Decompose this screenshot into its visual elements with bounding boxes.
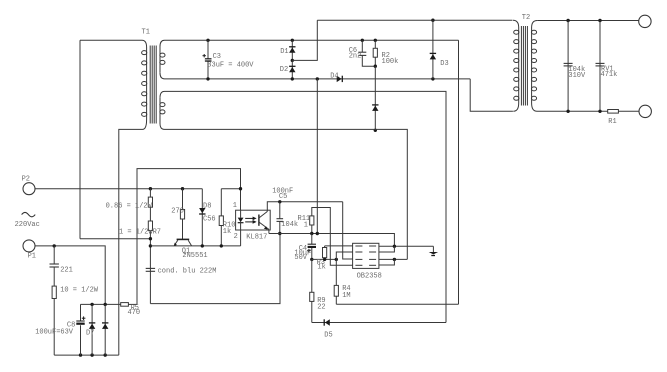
wire D5 line xyxy=(312,322,446,324)
svg-text:471k: 471k xyxy=(601,71,618,79)
wire snubber rail xyxy=(81,303,121,305)
varistor RV1 xyxy=(596,21,605,112)
svg-text:D8: D8 xyxy=(203,202,211,210)
svg-text:D5: D5 xyxy=(324,332,332,340)
node RV1 top xyxy=(598,19,601,22)
svg-text:220Vac: 220Vac xyxy=(15,221,40,229)
wire opto pin3 down xyxy=(268,229,270,233)
svg-text:270: 270 xyxy=(171,208,184,216)
transformer T2 core xyxy=(521,26,527,106)
diode D8 xyxy=(199,208,205,214)
svg-text:22: 22 xyxy=(317,303,325,311)
node D7 bottom xyxy=(90,353,93,356)
ground symbol xyxy=(429,246,438,255)
capacitor 221 xyxy=(50,246,59,286)
wire T2 secondary bottom xyxy=(537,110,608,112)
label D2 xyxy=(280,66,288,74)
resistor 10 half watt xyxy=(52,286,56,355)
node IC row1 xyxy=(393,245,396,248)
resistor 0.86 half watt xyxy=(148,189,152,208)
label 0.86 xyxy=(106,203,153,211)
label D3 xyxy=(440,60,448,68)
diode D5 xyxy=(324,319,330,325)
wire feedback drop x317 xyxy=(316,79,318,234)
node chainA mid1 xyxy=(149,237,152,240)
wire R5 up and box top xyxy=(137,169,241,305)
capacitor cond blu xyxy=(146,268,155,271)
svg-text:C5: C5 xyxy=(279,193,287,201)
wire vcc drop x458 xyxy=(458,40,460,304)
capacitor C4 xyxy=(307,234,316,260)
label 270 xyxy=(171,208,184,216)
label C8 xyxy=(35,321,75,336)
node R3 bottom xyxy=(323,258,326,261)
label C6 xyxy=(349,47,362,61)
svg-text:R7: R7 xyxy=(153,229,161,237)
svg-text:50V: 50V xyxy=(294,254,307,262)
svg-text:100k: 100k xyxy=(382,58,399,66)
wire secondary1 top rail y40 xyxy=(165,39,459,41)
resistor R7 xyxy=(148,207,152,303)
wire P2 line xyxy=(35,188,202,190)
svg-text:1k: 1k xyxy=(317,264,325,272)
opto LED xyxy=(238,210,244,246)
node IC row3 xyxy=(393,258,396,261)
opto pin1 label xyxy=(233,202,237,210)
svg-text:221: 221 xyxy=(60,266,73,274)
label 220Vac xyxy=(15,221,40,229)
svg-text:T2: T2 xyxy=(522,14,530,22)
svg-text:2n2: 2n2 xyxy=(349,53,362,61)
wire cond blu bottom xyxy=(150,234,280,304)
node D2 bottom xyxy=(291,77,294,80)
node chainA mid2 xyxy=(149,244,152,247)
ic U1 OB2358 box xyxy=(353,243,379,268)
node opto pin1 wire xyxy=(239,187,242,190)
diode D2 xyxy=(289,60,295,79)
node D6 bottom xyxy=(374,129,377,132)
svg-text:D7: D7 xyxy=(86,330,94,338)
terminal output top xyxy=(639,15,651,27)
transistor Q1 xyxy=(174,239,192,246)
node C4 bottom xyxy=(310,258,313,261)
ac symbol xyxy=(22,212,36,216)
wire to IC pin row2 xyxy=(336,252,352,259)
label output cap xyxy=(568,66,586,80)
svg-text:100uF=63V: 100uF=63V xyxy=(35,328,74,336)
label D5 xyxy=(324,332,332,340)
terminal output bottom xyxy=(639,105,651,117)
node 270 top xyxy=(181,187,184,190)
transformer T1 label xyxy=(142,29,150,37)
node R4 top xyxy=(335,258,338,261)
label C3 value xyxy=(207,61,254,69)
wire secondary1 bottom rail y79 xyxy=(165,78,471,80)
wire P1 line xyxy=(35,246,105,305)
node C3 top xyxy=(206,39,209,42)
svg-text:D2: D2 xyxy=(280,66,288,74)
resistor R2 xyxy=(373,40,377,66)
label D4 xyxy=(330,72,338,80)
label D8 xyxy=(203,202,216,223)
node output cap bottom xyxy=(566,110,569,113)
label C4 xyxy=(294,245,311,262)
svg-text:D3: D3 xyxy=(440,60,448,68)
node D3 top xyxy=(431,19,434,22)
wire primary top-left loop xyxy=(80,40,142,238)
terminal P2 xyxy=(22,176,35,195)
wire emitter rail xyxy=(150,245,240,247)
node D8 bottom xyxy=(201,244,204,247)
svg-text:470: 470 xyxy=(128,309,141,317)
diode D1 xyxy=(289,40,295,60)
node D3 bottom xyxy=(431,77,434,80)
resistor R9 xyxy=(310,259,314,322)
node R2 top xyxy=(374,39,377,42)
transformer T1 secondary 1 xyxy=(160,40,165,79)
svg-text:D1: D1 xyxy=(280,48,288,56)
svg-text:C56: C56 xyxy=(203,215,216,223)
diode snubber 2 xyxy=(102,304,108,355)
resistor R5 xyxy=(121,303,137,307)
resistor R4 xyxy=(334,259,338,304)
capacitor C3 xyxy=(203,40,212,79)
transformer T1 secondary 2 xyxy=(160,91,165,129)
node D1-D2 junction xyxy=(291,59,294,62)
terminal P1 xyxy=(23,240,36,260)
wire T1 primary bottom xyxy=(119,129,143,355)
wire D1D2 mid to top rail xyxy=(292,20,317,60)
node 221 cap top xyxy=(53,244,56,247)
node C3 bottom xyxy=(206,77,209,80)
wire R4 bottom rail xyxy=(336,303,458,305)
node D7 top xyxy=(90,303,93,306)
label D1 xyxy=(280,48,288,56)
label cond blu xyxy=(158,267,217,275)
svg-text:KL817: KL817 xyxy=(246,234,267,242)
svg-text:1: 1 xyxy=(233,202,237,210)
node C6-R2 bottom xyxy=(374,65,377,68)
label 221 xyxy=(60,266,73,274)
wire opto pin4 up xyxy=(267,202,342,210)
wire aux winding top y91 xyxy=(165,91,447,322)
svg-text:P2: P2 xyxy=(22,176,30,184)
wire IC right row2 xyxy=(379,246,395,252)
transformer T1 core xyxy=(150,46,156,124)
opto pin2 label xyxy=(234,233,238,241)
node C5 bottom xyxy=(278,232,281,235)
node P1 drop xyxy=(104,303,107,306)
node C5 top xyxy=(278,200,281,203)
label C3 xyxy=(213,53,221,61)
transformer T1 primary winding xyxy=(142,40,147,129)
label R9 xyxy=(317,297,325,311)
label R3 xyxy=(317,259,326,272)
capacitor C8 xyxy=(76,304,85,355)
svg-text:1: 1 xyxy=(304,221,308,229)
resistor R11 xyxy=(310,208,353,266)
wire top rail y20 xyxy=(317,19,512,21)
label C5 xyxy=(272,187,298,229)
label R11 xyxy=(298,215,311,230)
label Q1 xyxy=(182,247,208,260)
wire to T2 primary bottom xyxy=(470,79,513,111)
resistor R10 xyxy=(219,189,223,246)
capacitor C6 xyxy=(358,40,375,66)
wire pin4 drop to IC row3 xyxy=(343,202,353,259)
svg-text:0.86 = 1/2W: 0.86 = 1/2W xyxy=(106,203,153,211)
capacitor C5 xyxy=(277,202,284,234)
svg-text:10 = 1/2W: 10 = 1/2W xyxy=(60,286,99,294)
label R5 xyxy=(128,305,141,317)
opto arrows xyxy=(245,217,256,224)
wire rail y259 xyxy=(312,258,337,260)
svg-text:310V: 310V xyxy=(568,72,586,80)
svg-text:OB2358: OB2358 xyxy=(357,273,382,281)
opto phototransistor xyxy=(259,210,269,229)
svg-text:T1: T1 xyxy=(142,29,150,37)
resistor 270 xyxy=(180,189,184,239)
svg-text:33uF = 400V: 33uF = 400V xyxy=(207,61,254,69)
label R10 xyxy=(223,222,236,237)
label R1 xyxy=(608,118,616,126)
label R4 xyxy=(342,285,350,300)
node C6 top xyxy=(361,39,364,42)
wire R10 branch xyxy=(221,188,240,190)
node R11 bottom xyxy=(310,232,313,235)
svg-text:2: 2 xyxy=(234,233,238,241)
label R7 xyxy=(119,229,161,237)
wire mid rail y233 xyxy=(269,234,395,247)
diode D6 feedback xyxy=(372,66,378,130)
label OB2358 xyxy=(357,273,382,281)
wire IC right row4 xyxy=(379,259,395,265)
wire D8 branch xyxy=(201,189,203,246)
node C8 bottom xyxy=(79,353,82,356)
node chainA top xyxy=(149,187,152,190)
transformer T2 label xyxy=(522,14,530,22)
label D7 xyxy=(86,330,94,338)
wire IC right row3 xyxy=(379,258,407,260)
wire bottom rail xyxy=(54,354,119,356)
svg-text:R1: R1 xyxy=(608,118,616,126)
label KL817 xyxy=(246,234,267,242)
diode D3 xyxy=(430,20,436,79)
node gnd drop xyxy=(316,77,319,80)
optocoupler U2 box xyxy=(236,210,271,230)
wire T2 secondary top xyxy=(537,20,638,22)
resistor R1 xyxy=(608,110,639,114)
diode D7 xyxy=(89,304,95,355)
svg-text:cond. blu 222M: cond. blu 222M xyxy=(158,267,217,275)
resistor R3 xyxy=(323,246,353,260)
node drop x317 bottom xyxy=(316,232,319,235)
label 10 = 1/2W xyxy=(60,286,99,294)
svg-text:1k: 1k xyxy=(223,228,231,236)
label RV1 xyxy=(601,66,618,80)
diode D4 xyxy=(337,76,343,82)
svg-text:P1: P1 xyxy=(28,252,36,260)
node diode2 bottom xyxy=(104,353,107,356)
capacitor C out 104k 310V xyxy=(564,21,573,112)
node D1 top xyxy=(291,39,294,42)
svg-text:C3: C3 xyxy=(213,53,221,61)
svg-text:1M: 1M xyxy=(342,292,350,300)
svg-text:1 = 1/2W: 1 = 1/2W xyxy=(119,229,153,237)
label R2 xyxy=(382,52,399,66)
transformer T2 primary winding xyxy=(513,20,519,111)
svg-text:104k: 104k xyxy=(281,221,298,229)
wire aux winding bottom y129 xyxy=(165,129,408,259)
node RV1 bottom xyxy=(598,110,601,113)
node R10 bottom xyxy=(220,244,223,247)
svg-text:D4: D4 xyxy=(330,72,338,80)
node output cap top xyxy=(566,19,569,22)
wire mains-bridge link xyxy=(80,238,150,240)
svg-text:2N5551: 2N5551 xyxy=(182,252,207,260)
transformer T2 secondary winding xyxy=(531,21,537,112)
wire IC right row1 to ground xyxy=(379,245,434,247)
